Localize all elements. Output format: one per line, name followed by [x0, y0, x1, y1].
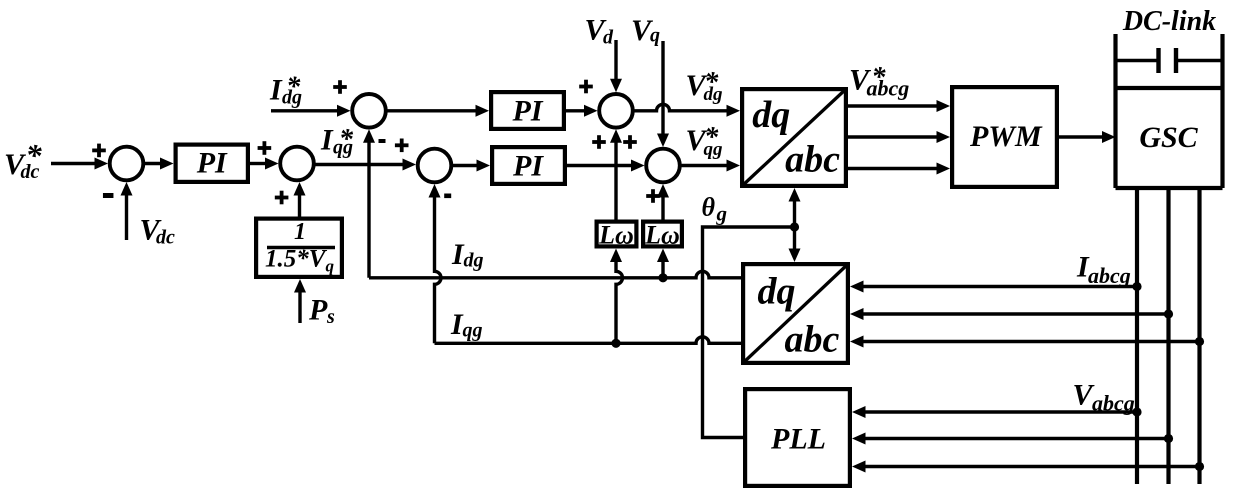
svg-text:dq: dq — [752, 94, 790, 136]
svg-text:*: * — [872, 62, 887, 93]
wire Vd stub down into S5 — [610, 40, 622, 92]
block U2 abc to dq feedback transform — [743, 264, 848, 363]
svg-text:*: * — [286, 72, 301, 103]
plus signs below S5 for feedback inputs — [592, 135, 637, 149]
wire gain block output up arrow into S2 — [294, 182, 306, 217]
block U1 dq to abc transform — [742, 89, 846, 186]
svg-text:PI: PI — [196, 147, 228, 180]
svg-text:d: d — [603, 26, 614, 48]
block L-omega-1 cross coupling — [597, 221, 637, 250]
svg-text:q: q — [326, 257, 335, 276]
summing junction S2 — [280, 147, 314, 181]
wire U1 phase a output to PWM — [848, 100, 950, 112]
svg-text:abcg: abcg — [1088, 263, 1131, 288]
label Idg* reference — [269, 72, 302, 109]
svg-text:P: P — [308, 294, 328, 327]
svg-text:abc: abc — [784, 319, 839, 361]
svg-text:*: * — [704, 67, 719, 98]
svg-text:dg: dg — [464, 250, 484, 272]
block PWM modulator — [952, 87, 1057, 187]
wire S6 to dq-abc block — [681, 160, 740, 172]
svg-text:GSC: GSC — [1139, 121, 1198, 154]
svg-text:PI: PI — [512, 94, 544, 127]
minus sign at S4 bottom input — [444, 194, 451, 199]
svg-text:I: I — [269, 74, 283, 107]
plus sign at S6 bottom input — [646, 189, 660, 203]
wire GSC phase a output line — [1135, 188, 1139, 484]
svg-text:q: q — [650, 25, 660, 47]
label Idg feedback — [451, 238, 484, 272]
wire Vdc feedback stub with up arrow — [121, 182, 133, 240]
summing junction S6 — [646, 149, 680, 183]
wire L-omega-2 input vertical from Idg line — [657, 249, 669, 278]
wire S5 to dq-abc block hopping over Vq line — [634, 104, 740, 117]
summing junction S3 — [352, 94, 386, 128]
wire PI2 to S6 — [567, 160, 645, 172]
wire Ps input stub with up arrow — [294, 279, 306, 323]
plus sign at S2 left input — [258, 141, 272, 155]
summing junction S4 — [418, 149, 452, 183]
minus sign at S1 bottom input — [103, 193, 114, 198]
wire PI3 to S5 — [566, 105, 598, 117]
wire PWM to GSC — [1059, 131, 1116, 143]
block PI3 d-axis current controller — [491, 92, 564, 129]
wire Idg feedback vertical into S3 — [363, 129, 375, 277]
block PI2 q-axis current controller — [492, 147, 565, 184]
svg-text:DC-link: DC-link — [1122, 6, 1216, 37]
wire Iabcg phase b into U2 — [850, 308, 1173, 320]
wire Iqg feedback line hopping over theta line — [435, 337, 742, 348]
svg-text:dc: dc — [156, 227, 175, 249]
wire GSC phase c output line — [1197, 188, 1201, 484]
block 1/(1.5*Vq) gain — [256, 219, 342, 277]
plus sign at S1 input — [92, 144, 106, 158]
plus sign at S5 left input — [579, 80, 593, 94]
wire Vabcg phase b into PLL — [852, 433, 1173, 445]
wire L-omega-2 output up into S6 — [657, 184, 669, 220]
wire Vdc* input arrow — [51, 158, 108, 170]
block GSC converter with DC-link capacitor — [1116, 34, 1223, 188]
label Vabcg* reference — [849, 62, 909, 101]
label DC-link — [1122, 6, 1216, 37]
wire S4 feedback vertical hopping over Idg line — [429, 184, 442, 343]
wire theta-g from PLL to transforms — [703, 227, 795, 438]
svg-text:dq: dq — [758, 270, 796, 312]
label Iqg feedback — [450, 308, 483, 342]
wire Vabcg phase c into PLL — [852, 461, 1204, 473]
plus sign at S2 bottom input — [275, 191, 289, 205]
svg-text:qg: qg — [463, 320, 483, 342]
svg-text:I: I — [320, 124, 334, 157]
svg-text:θ: θ — [702, 193, 716, 222]
summing junction S1 — [110, 147, 144, 181]
label Vabcg voltages — [1073, 379, 1135, 416]
wire S4 to PI2 — [453, 160, 491, 172]
wire Iabcg phase a into U2 — [850, 281, 1142, 293]
svg-text:Lω: Lω — [598, 221, 634, 250]
svg-text:PLL: PLL — [770, 423, 826, 456]
svg-text:PWM: PWM — [969, 120, 1043, 153]
block L-omega-2 cross coupling — [643, 221, 682, 250]
wire theta vertical connector between transforms — [789, 188, 801, 262]
label Vdg* voltage reference — [686, 67, 723, 105]
plus sign at S4 left input — [395, 139, 409, 153]
plus sign at S3 input — [333, 80, 347, 94]
wire GSC phase b output line — [1166, 188, 1170, 484]
wire Idg* input arrow — [271, 105, 351, 117]
svg-text:1: 1 — [294, 219, 306, 245]
label theta-g grid angle — [702, 193, 728, 226]
summing junction S5 — [599, 94, 633, 128]
label Iabcg currents — [1076, 251, 1131, 289]
svg-text:s: s — [326, 306, 335, 328]
minus sign at S3 bottom input — [379, 139, 386, 143]
label Vq feedforward — [631, 14, 660, 47]
label Vqg* voltage reference — [686, 122, 723, 160]
label Vd feedforward — [585, 14, 615, 49]
svg-text:abc: abc — [785, 139, 840, 181]
label Vdc* reference input — [4, 137, 43, 183]
wire L-omega-1 output up into S5 — [610, 129, 622, 219]
wire Idg feedback line hopping over theta line — [369, 271, 741, 282]
block PI1 dc-voltage controller — [176, 145, 248, 182]
wire S1 to PI1 — [145, 158, 174, 170]
svg-text:*: * — [26, 137, 43, 173]
wire Vabcg phase a into PLL — [852, 406, 1142, 418]
wire Vq stub down into S6 crossing row1 — [657, 41, 669, 147]
label Ps active power — [308, 294, 335, 329]
svg-text:Lω: Lω — [644, 221, 680, 250]
wire L-omega-1 input vertical hopping over Idg line — [610, 249, 623, 344]
wire PI1 to S2 — [250, 158, 279, 170]
label Iqg* reference — [320, 124, 354, 159]
wire S2 to S4 — [315, 159, 416, 171]
wire U1 phase b output to PWM — [848, 131, 950, 143]
label Vdc measured — [140, 214, 176, 249]
svg-text:*: * — [339, 124, 354, 155]
svg-text:g: g — [716, 202, 728, 226]
svg-text:1.5*V: 1.5*V — [265, 246, 328, 273]
svg-text:*: * — [704, 122, 719, 153]
block PLL phase locked loop — [745, 389, 850, 486]
wire U1 phase c output to PWM — [848, 163, 950, 175]
svg-text:PI: PI — [512, 149, 544, 182]
wire S3 to PI3 — [387, 105, 489, 117]
wire Iabcg phase c into U2 — [850, 336, 1204, 348]
